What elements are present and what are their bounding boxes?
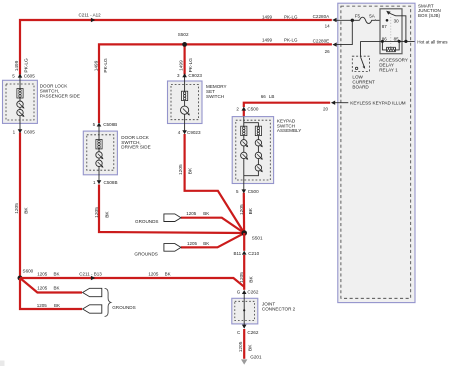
door lock switch passenger side box [3, 80, 38, 123]
passenger switch bulb 2 [17, 109, 23, 115]
label ACCESSORY DELAY RELAY 1 [379, 58, 408, 73]
grounds brace [105, 288, 111, 316]
wire 1205 BK passenger ground (below C605 to splice S600) [19, 133, 21, 277]
splice S502 [182, 42, 187, 47]
label DOOR LOCK SWITCH DRIVER SIDE [121, 135, 150, 150]
svg-text:PK-LG: PK-LG [284, 15, 298, 20]
memory switch bulb [181, 106, 189, 114]
svg-text:1499: 1499 [262, 38, 273, 43]
svg-text:G201: G201 [250, 354, 262, 359]
memory set switch box [168, 81, 203, 124]
svg-text:S502: S502 [178, 32, 189, 37]
memory set switch dashed border [171, 85, 199, 120]
svg-text:DRIVER SIDE: DRIVER SIDE [121, 145, 150, 150]
label MEMORY SET SWITCH [206, 84, 227, 99]
svg-text:GROUNDS: GROUNDS [112, 305, 135, 310]
svg-text:BK: BK [23, 207, 29, 214]
svg-text:G: G [237, 289, 241, 294]
svg-text:RELAY 1: RELAY 1 [379, 68, 398, 73]
svg-text:C211 - B13: C211 - B13 [79, 271, 102, 276]
svg-text:GROUNDS: GROUNDS [134, 252, 157, 257]
svg-text:BK: BK [54, 303, 60, 308]
svg-text:1205: 1205 [239, 272, 245, 283]
svg-text:PK-LG: PK-LG [23, 58, 29, 73]
keypad internal wire right column [244, 123, 259, 176]
svg-text:C508B: C508B [103, 122, 117, 127]
svg-text:C508B: C508B [104, 180, 118, 185]
junction dot pin 30 to hot line [404, 40, 407, 43]
svg-text:PK-LG: PK-LG [103, 58, 109, 73]
wire 1205 BK driver ground (below C508B, bus to splice S501) [99, 185, 244, 234]
wire 1499 PK-LG driver feed (vertical x=99 + horizontal y=44.4 to C2280E) [99, 44, 332, 123]
label KEYPAD SWITCH ASSEMBLY [277, 118, 301, 133]
wire 1205 BK joint connector C262 to ground G201 [243, 329, 245, 359]
label SMART JUNCTION BOX (SJB) [418, 3, 441, 18]
svg-text:1205: 1205 [178, 164, 184, 175]
svg-text:F5: F5 [355, 14, 361, 19]
svg-text:1499: 1499 [262, 15, 273, 20]
driver switch resistor [96, 140, 102, 149]
inline connector C211-A12 arrow [91, 18, 95, 22]
low current board contact [355, 67, 357, 69]
wire 1205 BK S600 to grounds flag upper [20, 278, 82, 293]
svg-text:PK-LG: PK-LG [284, 38, 298, 43]
connector C262 pin C arrow [242, 325, 247, 329]
splice S600 [18, 276, 23, 281]
svg-text:LB: LB [269, 94, 275, 99]
svg-text:BK: BK [165, 272, 171, 277]
svg-text:KEYLESS KEYPAD ILLUM: KEYLESS KEYPAD ILLUM [350, 101, 405, 106]
junction dot coil pin 85 [398, 40, 401, 43]
wire 66 LB keypad illumination feed from SJB pin 20 [244, 103, 330, 107]
keypad internal wire left column [243, 117, 245, 191]
grounds flag A (to S501) [164, 214, 181, 222]
page corner artifact [0, 361, 5, 366]
connector C508B pin 5 arrow [97, 123, 102, 127]
svg-text:1499: 1499 [178, 60, 184, 71]
svg-text:BK: BK [188, 167, 194, 174]
wire stub C500 pin2 to keypad box [243, 110, 245, 117]
label DOOR LOCK SWITCH PASSENGER SIDE [40, 84, 80, 99]
svg-text:BK: BK [247, 344, 253, 351]
keypad bulb left 2 [241, 152, 247, 158]
svg-text:26: 26 [325, 49, 331, 54]
connector C605 pin 1 arrow [18, 129, 23, 133]
connector C262 pin G arrow [242, 290, 247, 294]
svg-text:BK: BK [248, 207, 254, 214]
memory switch resistor [182, 91, 188, 100]
svg-text:C9023: C9023 [187, 130, 201, 135]
driver switch bulb 1 [96, 152, 102, 158]
keypad resistor right [255, 126, 261, 135]
svg-text:CONNECTOR 2: CONNECTOR 2 [262, 306, 296, 311]
door lock switch driver side box [83, 131, 117, 175]
svg-text:BK: BK [203, 241, 209, 246]
wire 1205 BK grounds flag A to splice S501 [181, 218, 244, 233]
passenger switch resistor [17, 89, 23, 98]
connector C9023 pin 4 arrow [182, 130, 187, 134]
hot at all times line [361, 40, 415, 42]
svg-text:66: 66 [261, 94, 267, 99]
wire 1205 BK grounds flag B to splice S501 [181, 233, 244, 247]
door lock switch driver dashed border [87, 135, 114, 170]
svg-text:S501: S501 [252, 236, 263, 241]
relay coil element [387, 47, 396, 51]
low current board dashed box [352, 56, 369, 71]
joint connector 2 box [232, 298, 258, 324]
svg-text:C2280E: C2280E [313, 38, 330, 43]
junction dot C2280A/C2280E branch [351, 19, 354, 22]
svg-text:PK-LG: PK-LG [188, 58, 194, 73]
keypad bulb right 2 [255, 152, 261, 158]
keypad bulb right 3 [255, 165, 261, 171]
svg-text:1499: 1499 [14, 60, 20, 71]
connector keypad illum arrow at SJB [331, 101, 335, 105]
smart junction box (SJB) enclosure [338, 3, 415, 302]
svg-text:BOX (SJB): BOX (SJB) [418, 13, 441, 18]
wire 1205 BK C210 down to joint connector C262 [243, 255, 245, 290]
svg-text:1205: 1205 [238, 341, 244, 352]
svg-text:1205: 1205 [186, 211, 197, 216]
junction dot coil pin 86 [381, 40, 384, 43]
keypad switch assembly box [232, 117, 273, 184]
wire 1499 PK-LG passenger door lock switch feed (vertical + top horizontal to C2280A) [20, 20, 332, 75]
grounds flag lower left-pointing [83, 305, 102, 313]
connector C210 pin B11 arrow [242, 251, 247, 255]
svg-text:5A: 5A [369, 14, 375, 19]
connector C500 pin 2 arrow [242, 107, 247, 111]
svg-text:1205: 1205 [37, 272, 48, 277]
svg-text:GROUNDS: GROUNDS [135, 219, 158, 224]
ground G201 arrow [241, 359, 247, 364]
connector C2280E arrow at SJB [332, 42, 336, 46]
wire hot line to low current board [360, 41, 362, 57]
svg-text:1205: 1205 [239, 204, 245, 215]
svg-text:S600: S600 [23, 269, 34, 274]
svg-text:20: 20 [323, 106, 329, 111]
svg-text:B11: B11 [234, 251, 242, 256]
svg-text:C210: C210 [248, 251, 259, 256]
svg-text:C2280A: C2280A [313, 14, 331, 19]
svg-text:PASSENGER SIDE: PASSENGER SIDE [40, 93, 80, 98]
svg-text:Hot at all times: Hot at all times [417, 40, 448, 45]
svg-text:C500: C500 [247, 107, 258, 112]
svg-text:BK: BK [203, 211, 209, 216]
keypad resistor left [241, 126, 247, 135]
joint connector center junction dot [243, 309, 245, 311]
wire 1205 BK S600 bus through C211-B13 to joint connector wire [20, 278, 244, 287]
relay pin 87 terminal dot [386, 19, 389, 22]
keypad switch assembly dashed border [236, 120, 270, 180]
svg-text:1205: 1205 [37, 303, 48, 308]
svg-text:30: 30 [394, 19, 400, 24]
wire 1205 BK keypad ground to splice S501 [243, 193, 246, 233]
svg-text:1205: 1205 [14, 203, 20, 214]
SJB wire C2280A to fuse [334, 19, 360, 21]
svg-text:BK: BK [105, 211, 111, 218]
keypad bulb left 1 [241, 140, 247, 146]
SJB wire branch down to C2280E [335, 20, 352, 44]
svg-text:87: 87 [382, 24, 388, 29]
wire 1205 BK splice S501 down to connector C210 [243, 233, 245, 251]
connector C2280A arrow at SJB [332, 18, 336, 22]
svg-text:C262: C262 [247, 289, 258, 294]
driver switch internal wire [98, 125, 100, 181]
door lock switch passenger dashed border [6, 84, 34, 120]
svg-text:1205: 1205 [94, 207, 100, 218]
label JOINT CONNECTOR 2 [262, 302, 296, 312]
relay switch blade with arrowhead [386, 11, 391, 15]
svg-text:BK: BK [248, 276, 254, 283]
splice S501 [241, 230, 247, 236]
connector C500 pin 5 arrow [242, 189, 247, 193]
svg-text:BK: BK [54, 286, 60, 291]
inline connector C211-B13 arrow [91, 276, 95, 280]
svg-text:SWITCH: SWITCH [206, 94, 224, 99]
relay coil loop [382, 41, 399, 50]
svg-text:14: 14 [325, 24, 331, 29]
fuse F5 5A element [360, 17, 376, 23]
svg-text:1205: 1205 [148, 272, 159, 277]
svg-text:C500: C500 [248, 189, 259, 194]
svg-text:C605: C605 [24, 130, 35, 135]
connector C508B pin 1 arrow [97, 180, 102, 184]
svg-text:BK: BK [54, 272, 60, 277]
svg-text:1499: 1499 [93, 60, 99, 71]
connector C9023 pin 3 arrow [182, 73, 187, 77]
low current board switch blade [361, 57, 364, 66]
svg-text:C605: C605 [24, 74, 35, 79]
svg-text:C9023: C9023 [188, 73, 202, 78]
wire 1205 BK S600 to grounds flag lower [20, 278, 82, 309]
passenger switch internal wire [19, 77, 21, 131]
wire 1499 PK-LG memory set switch feed from splice S502 [184, 44, 186, 74]
grounds flag B (to S501) [164, 244, 181, 252]
SJB inner dashed border [341, 6, 411, 298]
svg-text:C211 - A12: C211 - A12 [79, 12, 102, 17]
joint connector internal wire [243, 292, 245, 329]
wire 1205 BK memory set switch ground to splice S501 [185, 134, 245, 233]
connector C605 pin 5 arrow [18, 74, 23, 78]
memory switch internal wire [184, 77, 186, 131]
label LOW CURRENT BOARD [352, 74, 375, 89]
joint connector 2 dashed square [235, 301, 255, 320]
accessory delay relay 1 box [380, 9, 402, 54]
svg-text:ASSEMBLY: ASSEMBLY [277, 128, 301, 133]
driver switch bulb 2 [96, 160, 102, 166]
relay actuation dotted line [390, 17, 392, 47]
svg-text:BOARD: BOARD [352, 84, 369, 89]
keypad bulb right 1 [255, 140, 261, 146]
svg-text:C262: C262 [247, 330, 258, 335]
SJB wire fuse to relay pin 87 [375, 19, 387, 22]
grounds flag upper left-pointing [83, 288, 102, 296]
svg-text:1205: 1205 [187, 241, 198, 246]
svg-text:1205: 1205 [37, 286, 48, 291]
passenger switch bulb 1 [17, 101, 23, 107]
